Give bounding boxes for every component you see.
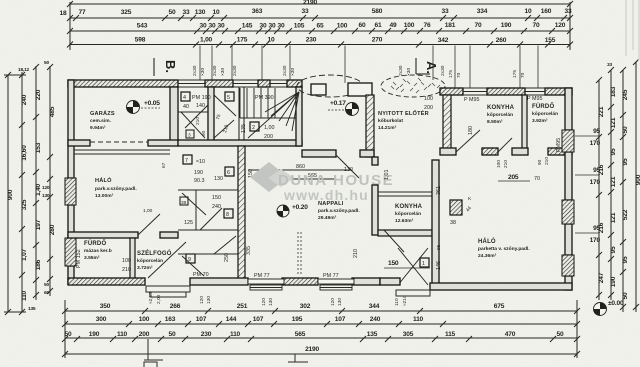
level marker +0.20 xyxy=(277,204,308,217)
entrance steps below szelfogo xyxy=(146,286,190,297)
150 dim + boxed 1 xyxy=(384,244,442,270)
bottom window PM77 #1 xyxy=(248,279,284,290)
right wall windows hatched xyxy=(562,130,574,152)
nappali label xyxy=(318,201,360,221)
bottom window PM77 #2 xyxy=(318,279,354,290)
level marker +0.05 xyxy=(127,100,161,114)
A. section marker xyxy=(416,58,439,74)
window label 5 PM390 xyxy=(225,92,274,101)
level marker +0.17 xyxy=(328,100,359,116)
door swings right wing xyxy=(456,130,512,152)
chimney xyxy=(450,196,473,226)
top dim line row B xyxy=(70,17,570,19)
halo room label xyxy=(95,176,137,199)
garage door dashed opening xyxy=(90,141,148,143)
konyha12 south wall xyxy=(378,230,432,236)
bottom dim lines xyxy=(65,300,577,358)
right wall window dims 95/170 xyxy=(590,128,601,244)
entrance door swing xyxy=(148,242,186,278)
small vertical dim stacks above plan xyxy=(192,65,446,76)
stairs fan xyxy=(248,92,299,138)
right outer wall xyxy=(565,88,572,130)
stair right wall xyxy=(296,87,302,146)
watermark diamond logo xyxy=(250,162,294,192)
kamra area labels xyxy=(180,155,234,226)
garage label xyxy=(90,110,115,131)
stair labels xyxy=(241,122,275,140)
left wall window halo (hatched) xyxy=(65,178,76,205)
halo door swing xyxy=(138,208,160,235)
small wc partition + swings xyxy=(178,95,236,138)
south door swings (garden door) xyxy=(398,248,428,285)
wall x208 vertical xyxy=(208,87,214,145)
stairs treads xyxy=(240,88,296,118)
furdo 3.55 label xyxy=(84,240,112,261)
porch pillar xyxy=(348,83,372,96)
window dim labels above right wing xyxy=(448,70,526,78)
205 dim xyxy=(498,174,540,182)
boxed 9 xyxy=(186,254,195,263)
door swing konyha12 xyxy=(384,230,404,252)
bottom ticks xyxy=(62,308,580,357)
faint scan streaks top-right corner xyxy=(626,0,639,60)
nyitott eloter label xyxy=(378,109,429,131)
bottom wall left wing xyxy=(68,278,145,285)
stair south wall xyxy=(178,140,302,146)
porch bush right (speckled) xyxy=(381,75,445,97)
top row C text xyxy=(137,22,566,30)
right dim texts (rotated) xyxy=(598,62,640,299)
window label 4 PM xyxy=(181,92,211,110)
porch door swing xyxy=(336,155,359,178)
porch south wall w/ door xyxy=(302,150,336,157)
top dim vertical connector xyxy=(69,2,71,50)
100/200 xyxy=(424,96,433,111)
left dim vertical lines xyxy=(4,66,50,312)
right wing top wall xyxy=(440,88,463,95)
ground-level marker arrow bottom xyxy=(144,339,163,367)
outer wall: left wing top (hatched) xyxy=(68,80,178,87)
kamra door swings xyxy=(182,193,236,276)
porch pillar left xyxy=(311,84,326,95)
bottom row1 text xyxy=(100,303,505,310)
konyha 8.50 label xyxy=(487,105,515,125)
top dim line row D xyxy=(70,44,570,46)
szelfogo label xyxy=(137,249,172,271)
left outer wall xyxy=(68,80,74,178)
stair left wall xyxy=(239,87,244,140)
halo(13) top wall thin xyxy=(74,150,170,154)
bottom wall right wing xyxy=(430,283,572,290)
section mark bottom center xyxy=(288,354,308,362)
right wing west hatched wall xyxy=(443,95,451,152)
nappali east wall upper xyxy=(372,157,378,165)
bottom row2 text xyxy=(96,316,424,323)
porch dashed canopy left xyxy=(297,75,363,97)
bottom rotated small dims xyxy=(148,292,408,306)
wall x432 vertical xyxy=(432,160,439,285)
nappali area: top dims 860/565 xyxy=(248,170,352,179)
halo 24.36 label xyxy=(478,237,530,259)
right dim vertical lines xyxy=(599,62,636,312)
konyha12 north wall xyxy=(378,192,432,196)
right wing south wall band xyxy=(440,148,456,155)
wall between furdo and szelfogo xyxy=(130,238,135,280)
100/210 door size text xyxy=(122,258,131,273)
level marker +-0.00 xyxy=(594,300,624,316)
konyha 12.63 xyxy=(395,204,423,224)
nappali east wall lower xyxy=(372,185,378,235)
garage right wall xyxy=(170,87,178,145)
bottom row3 text xyxy=(65,331,564,338)
garden door steps xyxy=(396,290,430,296)
porch east hatched wall xyxy=(366,95,374,157)
halo south wall xyxy=(68,232,138,238)
top row B text xyxy=(60,0,572,17)
B. section marker xyxy=(154,58,178,76)
terrace dashed edge xyxy=(298,232,301,276)
top row D text xyxy=(135,37,556,45)
hatched center wall x238 xyxy=(238,146,245,280)
wall konyha/furdo xyxy=(522,95,527,152)
top dim ticks xyxy=(67,1,573,48)
left wall window furdo (hatched) xyxy=(65,238,76,266)
right dim ticks xyxy=(596,59,639,310)
left dim texts (rotated) xyxy=(7,60,56,312)
left dim ticks xyxy=(5,64,53,315)
top dim line row A (2190) xyxy=(70,3,570,5)
top dim line row C xyxy=(70,30,570,32)
kamra walls xyxy=(178,190,238,254)
furdo 3.92 label xyxy=(532,103,558,124)
top wall windows (thin triple lines) xyxy=(178,80,287,87)
garage bottom wall segments xyxy=(68,140,90,146)
vertical guide lines from dims to plan xyxy=(200,46,538,89)
